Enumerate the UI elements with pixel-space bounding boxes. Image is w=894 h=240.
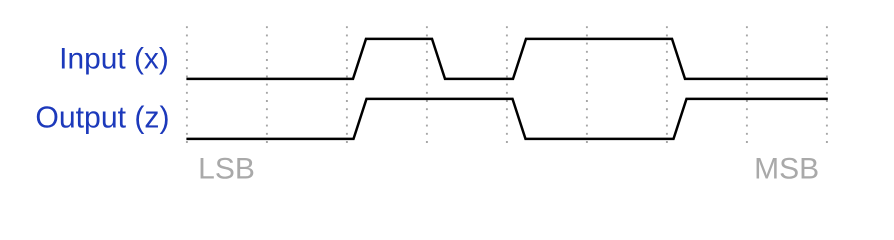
svg-text:Output (z): Output (z) xyxy=(35,102,169,135)
grid line t3 xyxy=(426,26,428,143)
svg-text:LSB: LSB xyxy=(198,152,255,185)
grid line t0 xyxy=(186,26,188,143)
grid line t4 xyxy=(506,26,508,143)
grid line t2 xyxy=(346,26,348,143)
grid line t6 xyxy=(666,26,668,143)
svg-text:MSB: MSB xyxy=(754,152,819,185)
grid line t8 xyxy=(826,26,828,143)
svg-text:Input (x): Input (x) xyxy=(59,43,169,76)
grid line t1 xyxy=(266,26,268,143)
signal Input (x) waveform xyxy=(186,39,827,79)
signal Output (z) waveform xyxy=(186,99,827,139)
grid line t7 xyxy=(746,26,748,143)
grid line t5 xyxy=(586,26,588,143)
